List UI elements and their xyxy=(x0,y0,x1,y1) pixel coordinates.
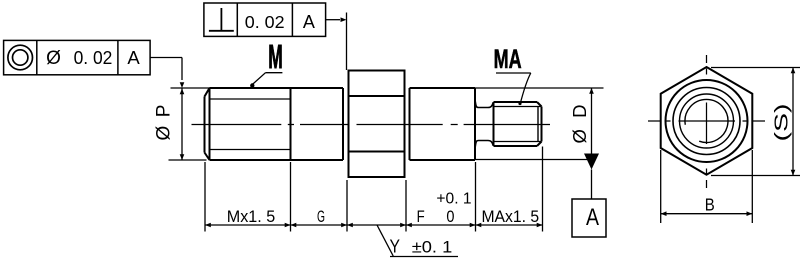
svg-text:0. 02: 0. 02 xyxy=(245,12,285,32)
thread arc 3/4 circle end view xyxy=(685,99,728,142)
feature control frame concentricity xyxy=(4,40,151,74)
label M with leader xyxy=(250,38,283,88)
svg-text:Y: Y xyxy=(390,235,401,256)
svg-text:+0. 1: +0. 1 xyxy=(436,191,471,208)
dimension S across flats xyxy=(711,68,800,176)
text G xyxy=(317,208,325,226)
plain section right of hex xyxy=(410,88,476,160)
text Mx1.5 xyxy=(227,208,276,226)
text A concentricity xyxy=(127,47,140,68)
text A perpendicularity xyxy=(303,12,315,32)
thread minor diameter lines M xyxy=(210,99,291,150)
centerline main view xyxy=(192,124,551,126)
chain dimension line bottom xyxy=(205,224,543,226)
svg-text:A: A xyxy=(303,12,315,32)
leader concentricity to dia P xyxy=(150,58,184,89)
symbol perpendicularity xyxy=(209,8,234,31)
hex end view circles xyxy=(666,80,748,162)
hex section side view xyxy=(349,71,405,178)
svg-text:A: A xyxy=(127,47,140,68)
dimension dia D with datum A xyxy=(475,88,604,160)
hex end view hexagon xyxy=(661,67,753,175)
centerlines hex end view xyxy=(648,55,765,188)
svg-text:Ø: Ø xyxy=(46,48,61,69)
symbol concentricity xyxy=(8,45,33,70)
leader Y plus leader line xyxy=(377,225,458,257)
thread minor diameter lines MA xyxy=(494,107,542,142)
dimension B xyxy=(661,150,753,223)
step face right of hex xyxy=(409,88,411,160)
extension line MA end xyxy=(542,147,544,232)
extension line shaft left end xyxy=(204,162,206,232)
svg-text:0. 02: 0. 02 xyxy=(74,47,113,68)
svg-text:M: M xyxy=(268,38,283,75)
datum frame A xyxy=(572,199,606,237)
extension line M G boundary xyxy=(290,162,292,232)
svg-text:Mx1. 5: Mx1. 5 xyxy=(227,208,276,226)
extension line hex left xyxy=(346,180,348,232)
thread section M outline xyxy=(205,88,344,160)
label MA with leader xyxy=(494,44,531,105)
svg-text:(S): (S) xyxy=(772,104,792,142)
thread section MA outline xyxy=(494,102,542,146)
svg-text:MA: MA xyxy=(494,44,522,74)
extension line hex right xyxy=(405,180,407,232)
svg-text:±0. 1: ±0. 1 xyxy=(412,239,453,257)
text Y xyxy=(390,235,401,256)
svg-text:A: A xyxy=(586,204,600,231)
text dia 0.02 concentricity xyxy=(46,47,112,69)
neck groove xyxy=(475,102,493,147)
svg-text:MAx1. 5: MAx1. 5 xyxy=(481,208,539,226)
text 0 tolerance lower xyxy=(446,208,454,226)
datum feature triangle A xyxy=(584,154,599,200)
svg-text:0: 0 xyxy=(446,208,454,226)
svg-text:G: G xyxy=(317,208,325,226)
chain dimension arrows xyxy=(205,223,543,228)
extension line shaft right face xyxy=(475,162,477,232)
text F xyxy=(417,208,425,226)
leader perpendicularity to hex face xyxy=(326,13,347,71)
text MAx1.5 xyxy=(481,208,539,226)
svg-text:F: F xyxy=(417,208,425,226)
step face left of hex xyxy=(342,88,344,160)
text +0.1 tolerance upper xyxy=(436,191,471,208)
svg-text:B: B xyxy=(705,194,715,214)
dimension dia P xyxy=(154,88,211,160)
text 0.02 perpendicularity xyxy=(245,12,285,32)
feature control frame perpendicularity xyxy=(204,3,326,36)
text plusminus 0.1 xyxy=(412,239,453,257)
